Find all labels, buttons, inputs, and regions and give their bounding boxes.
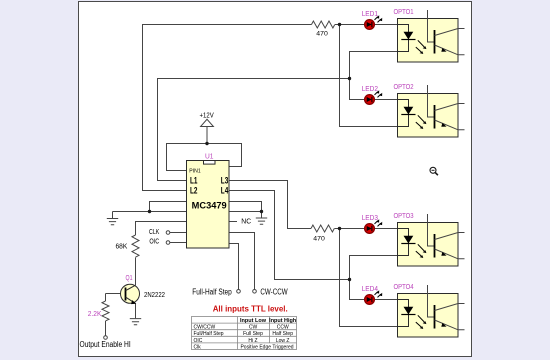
svg-text:Input High: Input High	[269, 318, 296, 324]
svg-text:CW: CW	[249, 325, 258, 331]
svg-text:Low Z: Low Z	[276, 338, 290, 344]
svg-text:U1: U1	[205, 153, 214, 160]
svg-text:470: 470	[313, 236, 325, 243]
svg-text:NC: NC	[241, 217, 251, 226]
svg-text:+12V: +12V	[200, 113, 214, 120]
svg-text:L4: L4	[221, 185, 229, 195]
svg-text:OPTO4: OPTO4	[394, 284, 414, 291]
svg-text:OIC: OIC	[194, 338, 203, 344]
svg-text:CLK: CLK	[149, 229, 160, 236]
svg-text:Hi Z: Hi Z	[248, 338, 257, 344]
svg-text:LED4: LED4	[362, 286, 378, 293]
svg-text:MC3479: MC3479	[192, 200, 227, 210]
svg-text:68K: 68K	[116, 244, 128, 251]
svg-text:Positive Edge Triggered: Positive Edge Triggered	[240, 344, 293, 350]
svg-text:Q1: Q1	[126, 275, 133, 282]
svg-text:470: 470	[316, 31, 328, 38]
svg-text:LED2: LED2	[362, 86, 378, 93]
svg-text:OPTO3: OPTO3	[394, 213, 414, 220]
svg-text:Half Step: Half Step	[272, 331, 293, 337]
svg-text:CW/CCW: CW/CCW	[194, 325, 216, 331]
svg-text:OPTO2: OPTO2	[394, 84, 414, 91]
svg-text:CCW: CCW	[277, 325, 289, 331]
svg-text:Full Step: Full Step	[243, 331, 263, 337]
svg-text:L3: L3	[221, 175, 229, 185]
svg-text:CW-CCW: CW-CCW	[260, 287, 288, 296]
svg-text:LED1: LED1	[362, 11, 378, 18]
svg-text:L1: L1	[190, 175, 198, 185]
svg-text:L2: L2	[190, 185, 198, 195]
svg-text:Clk: Clk	[194, 344, 202, 350]
svg-text:OIC: OIC	[149, 239, 159, 246]
svg-text:2N2222: 2N2222	[144, 292, 165, 299]
svg-text:PIN1: PIN1	[189, 168, 200, 174]
svg-text:All inputs TTL level.: All inputs TTL level.	[213, 304, 288, 314]
svg-text:2.2K: 2.2K	[88, 311, 102, 318]
svg-text:Input Low: Input Low	[240, 318, 266, 324]
svg-text:Output Enable HI: Output Enable HI	[80, 340, 131, 349]
svg-text:OPTO1: OPTO1	[394, 9, 414, 16]
svg-text:Full-Half Step: Full-Half Step	[192, 287, 232, 296]
svg-text:LED3: LED3	[362, 215, 378, 222]
svg-text:Full/Half Step: Full/Half Step	[194, 331, 224, 337]
